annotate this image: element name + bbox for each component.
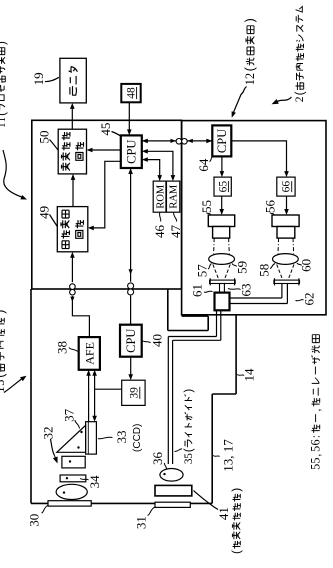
tilde 40 <box>141 340 151 343</box>
svg-text:,: , <box>311 409 323 412</box>
box: display control circuit 50 <box>58 129 86 174</box>
svg-text:(: ( <box>229 550 243 554</box>
svg-text:57: 57 <box>195 264 210 278</box>
svg-text:63: 63 <box>239 284 254 297</box>
box: CPU 64 (light source) <box>212 125 231 156</box>
universal cord upper outline vertical <box>182 315 209 317</box>
tilde 35 <box>175 449 183 452</box>
svg-text:): ) <box>0 41 8 45</box>
svg-text:ROM: ROM <box>155 184 166 209</box>
laser 55 beam <box>213 238 216 254</box>
tilde 30 <box>42 506 48 514</box>
svg-text:39: 39 <box>129 387 141 399</box>
svg-text:45: 45 <box>98 123 113 136</box>
svg-text:30: 30 <box>27 514 42 527</box>
box: CPU 40 (scope) <box>120 325 142 357</box>
svg-text:): ) <box>229 488 243 492</box>
wire: CPU45 to ROM <box>145 160 160 179</box>
svg-text:(: ( <box>182 448 195 452</box>
leader 49 <box>50 215 58 227</box>
box: AFE 38 <box>79 337 100 370</box>
svg-text:34: 34 <box>87 475 102 489</box>
endoscope 13 outline top edge <box>30 289 32 503</box>
wire: CPU40 to 39 <box>130 357 132 378</box>
svg-text:): ) <box>182 389 195 393</box>
svg-text:): ) <box>0 310 7 314</box>
svg-text:CPU: CPU <box>124 140 138 164</box>
svg-text:5: 5 <box>308 446 322 452</box>
endoscope 13 outline left edge <box>31 502 212 504</box>
prism 32/37 <box>57 425 86 452</box>
wire: 39 to CCD and AFE (drive) <box>94 373 96 420</box>
tilde 14 <box>237 375 244 376</box>
tilde 33 <box>98 437 113 439</box>
svg-text:19: 19 <box>31 72 46 85</box>
svg-text:,: , <box>311 454 323 457</box>
svg-text:33: 33 <box>114 431 129 444</box>
svg-text:56: 56 <box>263 200 278 214</box>
svg-text:58: 58 <box>257 264 272 277</box>
svg-text:): ) <box>243 18 257 22</box>
wire: 49 to 50 <box>72 177 74 207</box>
box: input 48 <box>121 84 140 102</box>
lens element 34a <box>62 456 85 468</box>
laser light source 55 <box>208 215 234 227</box>
stem into combiner (laser55) <box>220 284 225 293</box>
box: driver 66 <box>277 177 295 196</box>
svg-text:38: 38 <box>55 341 70 354</box>
svg-text:46: 46 <box>152 225 167 239</box>
wire: CPU45 to display control 50 <box>89 149 121 151</box>
universal cord lower outline step <box>212 393 236 395</box>
svg-text:2: 2 <box>293 96 306 102</box>
tilde 64 <box>210 156 214 162</box>
box: image processing circuit 49 <box>57 207 88 252</box>
connector circles (processor/light source) <box>176 138 182 144</box>
svg-text:5: 5 <box>308 457 322 463</box>
box: CCD 33 <box>86 422 97 454</box>
wire: CCD to AFE (signal) <box>88 373 90 422</box>
tilde 38 <box>69 348 79 353</box>
endoscope 13 outline bottom edge <box>211 394 213 503</box>
svg-text:RAM: RAM <box>169 184 180 209</box>
svg-text:5: 5 <box>183 453 195 459</box>
svg-text:3: 3 <box>0 380 7 386</box>
tilde 46 <box>160 212 161 221</box>
tilde 47 <box>174 212 177 221</box>
svg-text:5: 5 <box>308 464 322 470</box>
svg-text:6: 6 <box>308 439 322 445</box>
illumination window 31 <box>155 502 190 507</box>
svg-text:61: 61 <box>190 284 205 297</box>
svg-text:65: 65 <box>217 181 229 193</box>
lens element 34b <box>60 475 86 482</box>
wire: CPU64 to 66 <box>231 141 286 175</box>
observation window 30 <box>48 501 91 506</box>
connector circles (scope/processor) AFE line <box>70 289 76 295</box>
tilde 37 <box>75 420 80 429</box>
tilde 34 <box>80 479 89 481</box>
box: ROM 46 / RAM 47 <box>153 181 180 212</box>
svg-text::: : <box>310 435 322 438</box>
leader 45 <box>112 132 122 137</box>
svg-text:59: 59 <box>235 261 250 274</box>
collimator lens 57 <box>209 254 235 265</box>
universal cord lower outline to light source <box>235 315 237 394</box>
box: monitor 19 <box>60 58 86 103</box>
wire: CPU64 to 65 <box>221 156 223 174</box>
wire: 50 to monitor 19 <box>71 106 73 130</box>
svg-text:1: 1 <box>243 79 257 85</box>
svg-text:AFE: AFE <box>83 342 97 365</box>
svg-text:2: 2 <box>243 73 257 79</box>
box: driver 65 <box>214 177 231 196</box>
tilde 36 <box>164 463 166 470</box>
svg-text:48: 48 <box>125 87 137 99</box>
svg-text:CPU: CPU <box>124 329 138 353</box>
svg-text:55: 55 <box>199 200 214 213</box>
wavelength conversion member 41 <box>155 485 192 496</box>
svg-text:62: 62 <box>302 293 317 306</box>
collimator lens 58 <box>273 254 299 265</box>
svg-text:(: ( <box>0 112 8 116</box>
leader 19 <box>45 77 59 81</box>
laser 56 beam <box>277 238 280 254</box>
svg-text:60: 60 <box>299 259 314 272</box>
svg-text:13, 17: 13, 17 <box>221 439 236 472</box>
tilde 13-17 <box>213 456 220 457</box>
svg-text:1: 1 <box>0 117 8 122</box>
wire: 66 to laser 56 <box>286 196 288 212</box>
svg-text:37: 37 <box>62 408 77 422</box>
light guide 35 pipe from combiner <box>216 310 218 336</box>
box: drive circuit 39 <box>122 380 145 405</box>
svg-text:64: 64 <box>196 158 211 172</box>
wire: 48 to CPU45 <box>128 102 130 132</box>
objective lens 32 group front <box>56 484 87 499</box>
laser light source 56 <box>272 215 299 227</box>
leader 50 <box>50 140 59 151</box>
svg-text:1: 1 <box>0 123 8 128</box>
wire: AFE to image processing 49 via connector <box>72 296 89 337</box>
svg-text:32: 32 <box>41 427 56 440</box>
svg-text:66: 66 <box>281 181 293 193</box>
wire: CPU45 to image processing 49 <box>91 161 121 228</box>
svg-text:49: 49 <box>37 206 52 219</box>
aperture bar 60 (laser56) <box>274 280 300 283</box>
wire: CPU45 to RAM <box>145 151 173 178</box>
svg-text:(: ( <box>292 91 306 95</box>
endoscope outline notch line <box>167 289 169 331</box>
svg-text:(CCD): (CCD) <box>132 424 143 452</box>
laser 55 converging beam <box>213 264 219 280</box>
wire: CPU40 to CPU45 via connector <box>130 296 132 325</box>
beam pipe from laser56 to combiner (mirror 62) <box>281 284 283 299</box>
aperture bar 59 (laser55) <box>210 280 236 283</box>
endoscope outline notch vertical <box>168 330 208 332</box>
combiner 61 <box>215 293 230 311</box>
svg-text:50: 50 <box>37 131 52 144</box>
laser 56 converging beam <box>277 264 283 280</box>
condenser lens 36 <box>160 469 183 482</box>
svg-text:CPU: CPU <box>215 129 229 153</box>
wire: 65 to laser 55 <box>221 196 223 212</box>
processor device 11 enclosure <box>32 120 182 289</box>
svg-text:47: 47 <box>168 225 183 239</box>
light source device 12 enclosure <box>182 121 326 315</box>
tilde 31 <box>148 507 155 515</box>
svg-text:31: 31 <box>134 516 149 529</box>
wire: CPU45 to CPU64 via connector <box>142 140 176 142</box>
box: CPU 45 (processor) <box>121 135 142 168</box>
universal cord upper outline <box>207 316 209 330</box>
svg-text:40: 40 <box>150 334 165 347</box>
svg-text:36: 36 <box>150 452 165 466</box>
connector circles (scope/processor) CPU line <box>128 289 134 295</box>
